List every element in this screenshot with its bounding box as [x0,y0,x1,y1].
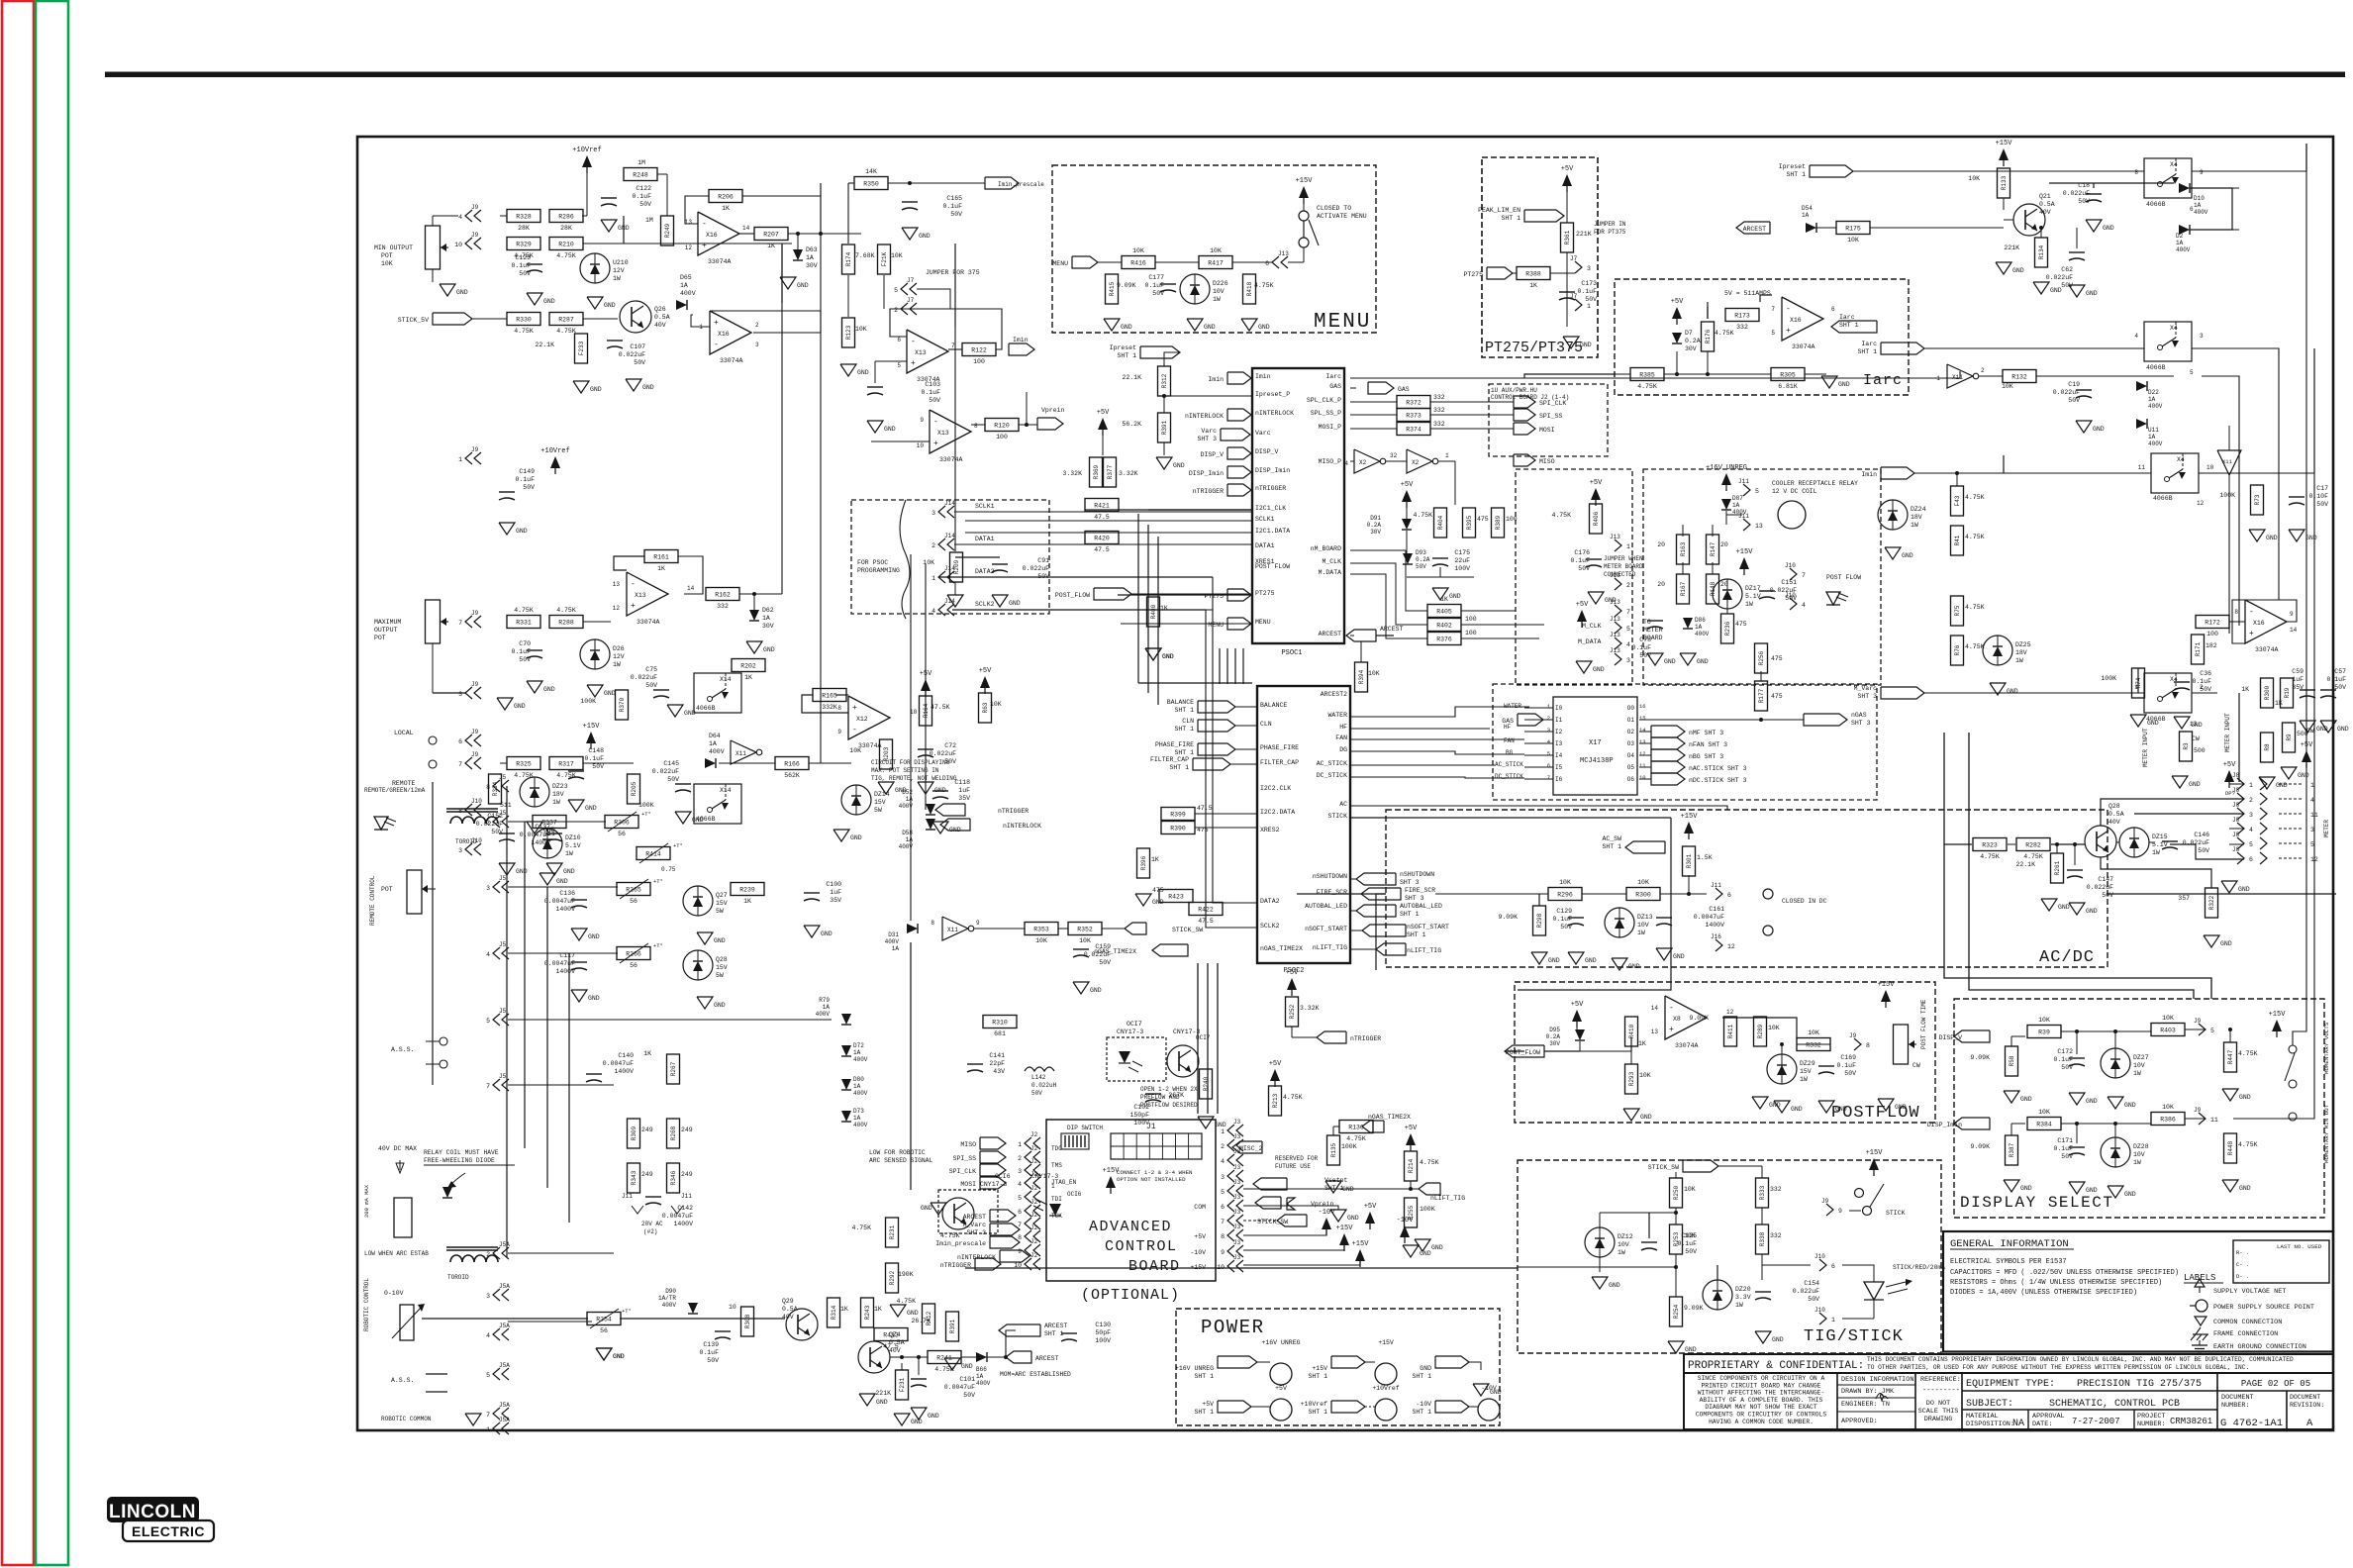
svg-text:1A: 1A [762,615,770,622]
op-amp X8 [1665,996,1707,1049]
resistor F231 [896,1370,909,1400]
zener diode [841,785,890,815]
svg-text:1M: 1M [645,217,653,224]
svg-text:1400V: 1400V [614,1068,634,1075]
svg-text:OPTION NOT INSTALLED: OPTION NOT INSTALLED [1117,1176,1186,1183]
svg-text:nM_BOARD: nM_BOARD [1311,545,1341,552]
svg-text:50V: 50V [2068,397,2080,404]
resistor R135 [1327,1135,1340,1165]
svg-text:33074A: 33074A [637,619,660,626]
svg-text:R136: R136 [1348,1125,1364,1131]
svg-text:STICK: STICK [1886,1210,1906,1217]
resistor R412 [923,1304,935,1333]
svg-text:R338: R338 [1759,1231,1766,1246]
svg-text:3: 3 [2200,333,2204,340]
supply +5V [1405,1125,1418,1151]
connector pin [1814,1253,1835,1271]
connector pin [1018,1225,1040,1242]
svg-text:DESIGN INFORMATION: DESIGN INFORMATION [1841,1376,1913,1384]
supply +5V [1571,1001,1584,1028]
connector pin [931,533,955,550]
svg-text:J13: J13 [1610,616,1620,623]
power supply source point [1375,1399,1397,1421]
svg-text:J10: J10 [1785,562,1796,569]
capacitor [520,824,562,846]
display select feed wires [2108,893,2336,895]
svg-text:22pF: 22pF [989,1060,1005,1067]
svg-text:POST_FLOW: POST_FLOW [1506,1049,1540,1056]
svg-text:1K: 1K [1529,282,1537,289]
svg-text:R300: R300 [1635,892,1651,899]
svg-text:4.75K: 4.75K [1965,604,1985,611]
svg-text:MATERIAL: MATERIAL [1966,1413,1999,1421]
svg-text:10K: 10K [2038,1017,2050,1024]
meter long wires [1944,733,2211,999]
connector pin [458,610,481,628]
op-amp X13 [627,572,668,626]
svg-text:4.75K: 4.75K [556,607,576,614]
resistor R415 [1106,274,1119,304]
svg-text:O3: O3 [1627,740,1635,747]
svg-text:0.2A: 0.2A [1546,1033,1561,1040]
svg-text:+: + [852,704,857,713]
svg-text:DC_STICK: DC_STICK [1495,773,1523,780]
svg-text:J11: J11 [1711,882,1721,889]
svg-text:I4: I4 [1555,752,1563,759]
svg-text:0.1uF: 0.1uF [584,755,604,762]
supply +5V [920,670,932,697]
connector pin [1738,478,1759,496]
svg-text:DATA2: DATA2 [1260,898,1280,905]
svg-text:0.022uF: 0.022uF [930,750,956,757]
svg-text:33074A: 33074A [708,258,732,265]
connector pin [1221,1239,1243,1257]
capacitor [652,760,691,792]
resistor R350 [854,168,888,190]
svg-text:1W: 1W [1213,296,1221,303]
svg-text:CNY17-3: CNY17-3 [1117,1029,1143,1035]
svg-text:nINTERLOCK: nINTERLOCK [957,1254,996,1261]
svg-text:1K: 1K [2241,686,2249,693]
svg-text:R421: R421 [1094,503,1110,510]
svg-text:50V: 50V [1152,290,1164,297]
ground [1145,648,1174,660]
svg-text:LINCOLN: LINCOLN [109,1502,196,1522]
net tag [1881,687,1924,699]
svg-text:+15V: +15V [1681,813,1699,821]
resistor R250 [1670,1178,1683,1208]
svg-text:HAVING A COMMON CODE NUMBER.: HAVING A COMMON CODE NUMBER. [1709,1419,1814,1425]
svg-text:R202: R202 [740,663,756,670]
wires relay [1682,562,1684,574]
svg-text:CW: CW [2306,728,2314,735]
ground [1612,958,1640,970]
svg-text:D58: D58 [902,830,913,836]
resistor F21K [878,245,891,274]
svg-text:ARCEST: ARCEST [1743,226,1767,233]
net tag [1435,1401,1469,1413]
svg-text:50V: 50V [1578,565,1590,572]
svg-text:50V: 50V [2200,686,2211,693]
resistor R289 [1754,1017,1767,1046]
svg-text:3: 3 [458,847,462,854]
svg-text:R175: R175 [1845,226,1861,233]
capacitor [2053,381,2092,404]
resistor R330 [507,313,540,336]
svg-text:R333: R333 [1759,1185,1766,1200]
net tag [999,1324,1040,1336]
connector pin [486,1241,510,1259]
resistor R328 [507,210,540,233]
connector pin [2194,1018,2214,1035]
svg-text:SHT 1: SHT 1 [1501,215,1520,222]
ground [867,421,896,433]
svg-text:GND: GND [884,426,896,433]
supply +5V [979,667,992,694]
svg-text:R9: R9 [2286,734,2293,741]
resistor R387 [2006,1135,2018,1165]
svg-text:GND: GND [2191,722,2203,729]
svg-text:SPI_CLK: SPI_CLK [1539,400,1566,407]
diode [1806,223,1816,233]
svg-text:332: 332 [717,603,729,610]
svg-text:10V: 10V [1637,922,1649,929]
svg-text:40V DC MAX: 40V DC MAX [378,1145,417,1152]
svg-text:R173: R173 [1734,313,1750,320]
svg-text:+: + [1669,1026,1674,1034]
svg-text:8: 8 [974,423,978,430]
svg-text:GND: GND [2298,772,2309,779]
svg-text:DRAWN BY: JMK: DRAWN BY: JMK [1841,1388,1895,1396]
capacitor [631,666,669,698]
svg-text:C176: C176 [1574,549,1590,556]
svg-text:GND: GND [797,282,809,289]
svg-text:1W: 1W [2015,657,2023,664]
resistor R174 [842,245,855,274]
svg-text:8: 8 [2134,169,2138,176]
svg-text:Ipreset: Ipreset [1779,163,1806,170]
capacitor [2289,485,2328,508]
svg-text:X4: X4 [2170,161,2178,168]
svg-text:nGAS_TIME2X: nGAS_TIME2X [1094,948,1136,955]
svg-text:J5A: J5A [499,1417,510,1423]
svg-text:22.1K: 22.1K [2015,861,2035,868]
svg-text:SHT 3: SHT 3 [1405,895,1424,902]
svg-text:J10: J10 [1814,1253,1825,1260]
capacitor [1755,1280,1819,1303]
svg-text:C165: C165 [946,195,962,202]
svg-text:475: 475 [1771,693,1783,700]
svg-text:50V: 50V [2102,892,2113,899]
svg-text:J7: J7 [1570,255,1578,262]
capacitor [1656,906,1724,929]
svg-text:-10V: -10V [1481,1385,1497,1392]
svg-text:Ipreset: Ipreset [1110,344,1136,351]
menu pt275 wires [1118,594,1252,596]
svg-text:GND: GND [1449,593,1461,600]
net tag [1227,589,1251,601]
svg-text:D26: D26 [613,645,625,652]
svg-text:1W: 1W [1618,1249,1625,1256]
connector pin [1785,592,1806,610]
net tag [1072,256,1098,268]
svg-text:+15V: +15V [1866,1149,1884,1157]
svg-text:100: 100 [996,434,1008,441]
svg-text:50V: 50V [1585,296,1597,303]
svg-text:R3: R3 [2183,742,2190,750]
svg-text:0.5A: 0.5A [782,1306,798,1313]
svg-text:METER INPUT: METER INPUT [2142,728,2149,767]
net tag [1253,1178,1287,1190]
svg-text:CW: CW [1912,1062,1920,1069]
svg-text:R406: R406 [1593,511,1600,526]
supply +5V [1590,479,1603,506]
svg-text:HF: HF [1339,724,1347,731]
svg-text:ARCEST: ARCEST [1319,631,1342,637]
svg-text:11: 11 [1639,762,1646,769]
svg-text:QZ4: QZ4 [889,1331,901,1338]
connector pin [2260,852,2267,864]
svg-text:32: 32 [1390,452,1398,459]
resistor R261 [2051,853,2064,883]
svg-text:1A: 1A [976,1373,984,1380]
svg-text:-: - [702,220,707,229]
net tag [1255,1197,1281,1209]
svg-text:562K: 562K [784,772,800,779]
svg-text:0.1uF: 0.1uF [2326,676,2346,683]
svg-text:COMPONENTS OR CIRCUITRY OF CON: COMPONENTS OR CIRCUITRY OF CONTROLS [1696,1412,1826,1419]
svg-text:nTRIGGER: nTRIGGER [1350,1035,1381,1042]
svg-text:12: 12 [613,605,621,612]
ground [571,929,600,940]
svg-text:3: 3 [486,885,490,892]
svg-text:GND: GND [2276,782,2288,789]
resistor R132 [2003,370,2036,383]
supply +5V [1286,969,1299,996]
net tag [1810,165,1853,177]
ground [2069,1093,2098,1105]
resistor R332 [1797,1029,1830,1051]
svg-text:0.1uF: 0.1uF [515,476,535,483]
svg-text:J8: J8 [2232,802,2240,809]
net tag [1514,454,1535,466]
svg-text:4.75K: 4.75K [2023,853,2043,860]
supply +5V [2301,741,2313,768]
bottom long wire [422,1318,588,1320]
svg-text:OCI7: OCI7 [1127,1021,1142,1028]
svg-text:TIG/STICK: TIG/STICK [1804,1327,1904,1346]
vertical bus psoc1-psoc2 [1226,692,1228,694]
svg-text:R122: R122 [971,347,987,354]
svg-text:DISPOSITION:: DISPOSITION: [1966,1421,2014,1428]
zener diode [2101,1137,2149,1167]
net tag [1524,210,1564,222]
red margin bar [2,1,34,1565]
svg-text:FIRE_SCR: FIRE_SCR [1317,889,1347,896]
svg-text:7: 7 [486,1412,490,1419]
toroid winding [446,809,498,824]
svg-text:R328: R328 [516,214,532,221]
svg-text:R420: R420 [1094,536,1110,542]
resistor R172 [2196,616,2229,638]
svg-text:NUMBER:: NUMBER: [2221,1402,2250,1410]
svg-text:SHT 1: SHT 1 [1194,1373,1214,1380]
supply +15V [1681,813,1699,839]
connector pin [1610,616,1630,634]
svg-text:ENGINEER: TN: ENGINEER: TN [1841,1401,1890,1409]
ground [571,990,600,1002]
capacitor [967,1052,1005,1075]
svg-text:C147: C147 [2098,876,2113,883]
svg-text:100: 100 [1465,630,1477,637]
svg-text:8: 8 [1221,1233,1225,1240]
resistor R334 [489,774,502,804]
resistor R171 [2192,635,2205,664]
svg-text:R370: R370 [619,697,626,712]
svg-text:40V: 40V [889,1347,901,1354]
svg-text:R8: R8 [2264,743,2271,751]
supply +10Vref [572,147,601,173]
svg-text:DISP_V: DISP_V [1939,1034,1963,1041]
svg-text:12: 12 [1727,943,1735,950]
svg-text:POWER: POWER [1201,1317,1265,1338]
svg-text:SHT 1: SHT 1 [1857,348,1877,355]
svg-text:R177: R177 [1758,688,1765,703]
svg-text:R376: R376 [1436,637,1452,643]
resistor R296 [1548,879,1582,901]
svg-text:R361: R361 [1564,230,1571,245]
svg-text:0.022uF: 0.022uF [2063,190,2090,197]
acdc left entry [1297,893,1386,895]
svg-text:10K: 10K [1684,1186,1696,1193]
svg-text:+5V: +5V [1269,1060,1282,1068]
svg-text:U11: U11 [2148,427,2159,434]
svg-text:13: 13 [613,581,621,588]
svg-text:Vprein: Vprein [1041,407,1065,414]
diode [442,1187,452,1198]
svg-text:J2: J2 [1030,1158,1038,1165]
resistor R418 [1243,274,1256,304]
svg-text:10V: 10V [1213,288,1225,295]
diode [841,1045,851,1056]
svg-text:50V: 50V [519,270,531,277]
svg-text:50pF: 50pF [1095,1329,1111,1336]
resistor R19 [2281,678,2294,708]
resistor R354 [587,1313,621,1335]
svg-text:10K: 10K [1210,247,1222,254]
resistor R384 [2027,1109,2061,1130]
svg-text:STICK_5V: STICK_5V [398,317,429,324]
svg-text:GND: GND [2337,726,2349,733]
svg-text:SHT 1: SHT 1 [1169,764,1189,771]
svg-text:R249: R249 [664,223,671,238]
svg-text:35V: 35V [958,795,970,802]
variable resistor robotic [400,1305,414,1340]
svg-text:5: 5 [894,287,898,294]
resistor R420 [1085,532,1119,554]
svg-text:100K: 100K [1341,1143,1357,1150]
svg-text:O6: O6 [1627,776,1635,783]
svg-text:C177: C177 [1148,274,1164,281]
svg-text:0.1uF: 0.1uF [511,648,531,655]
svg-text:4.75K: 4.75K [1346,1135,1366,1142]
svg-text:COMMON CONNECTION: COMMON CONNECTION [2213,1319,2282,1326]
svg-text:ARCEST: ARCEST [1380,626,1404,633]
resistor R301 [1683,846,1696,876]
net tag [990,1210,1016,1222]
svg-text:DP?: DP? [2225,790,2235,797]
ground [2130,715,2159,727]
svg-text:0.1uF: 0.1uF [511,262,531,269]
svg-text:Varc: Varc [1255,430,1271,437]
svg-text:DZ14: DZ14 [874,791,890,798]
svg-text:47.5K: 47.5K [931,704,950,711]
svg-text:DZ17: DZ17 [1745,585,1761,592]
svg-text:0.5A: 0.5A [2108,811,2124,818]
resistor R213 [1269,1086,1282,1116]
svg-text:GND: GND [1420,1250,1431,1257]
svg-text:1A: 1A [892,945,900,952]
svg-text:I6: I6 [1555,776,1563,783]
svg-text:0.022uF: 0.022uF [631,674,657,681]
svg-text:GND: GND [1548,957,1560,964]
ground [2033,282,2062,294]
svg-text:R205: R205 [631,781,637,796]
potentiometer [426,600,449,643]
ground [527,681,555,693]
svg-text:R58: R58 [2009,1055,2015,1066]
svg-text:CONTROL: CONTROL [1105,1238,1178,1255]
svg-text:X12: X12 [856,716,868,723]
svg-text:1: 1 [1831,1317,1835,1323]
svg-text:STICK: STICK [1327,813,1347,820]
svg-text:J3: J3 [1233,1239,1241,1246]
diode [1575,1029,1585,1040]
svg-text:4066B: 4066B [2146,364,2166,371]
ground [2108,1186,2136,1198]
svg-text:50V: 50V [929,397,940,404]
svg-text:FAN: FAN [1335,735,1347,741]
connector pin [1610,647,1630,665]
svg-text:+T°: +T° [673,842,683,849]
connector pin [1610,534,1630,551]
svg-text:357: 357 [2178,895,2190,902]
svg-text:R384: R384 [2036,1122,2052,1128]
svg-text:D86: D86 [1695,617,1706,624]
svg-text:1A: 1A [2148,434,2156,441]
svg-text:R329: R329 [516,242,532,248]
resistor R8 [2261,733,2274,762]
connector pin [1265,250,1289,268]
supply -10V [1397,1217,1415,1243]
svg-text:4.75K: 4.75K [1637,383,1657,390]
svg-text:ACTIVATE MENU: ACTIVATE MENU [1317,213,1367,220]
svg-text:AC/DC: AC/DC [2039,948,2095,967]
resistor R372 [1397,396,1430,409]
resistor R399 [1161,808,1195,821]
svg-text:R396: R396 [1140,855,1147,870]
ground [804,926,833,937]
svg-text:A.S.S.: A.S.S. [391,1046,414,1053]
op-amp X13 [930,410,971,463]
svg-text:Imin: Imin [1255,373,1271,380]
svg-text:GND: GND [821,931,833,937]
svg-text:0.5A: 0.5A [2039,201,2055,208]
svg-text:332: 332 [1736,324,1748,331]
capacitor [544,952,587,975]
resistor R173 [1725,309,1759,332]
net tag [1514,396,1535,408]
